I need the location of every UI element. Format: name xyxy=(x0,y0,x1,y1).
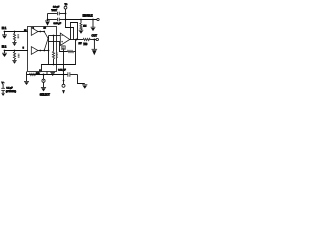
capacitor C1 bypass top xyxy=(48,12,66,16)
wire feedback column vertical xyxy=(42,40,76,72)
terminal OUT xyxy=(96,38,98,40)
node junction pulldown xyxy=(80,19,82,21)
op-amp U2 xyxy=(60,33,69,45)
wire op-amp inverting input xyxy=(49,35,61,37)
wire box pin to rail left xyxy=(26,72,28,82)
wire inverting feedback drop xyxy=(60,42,68,52)
wire mux common vertical xyxy=(48,36,50,65)
wire ENABLE rail xyxy=(66,19,97,21)
svg-text:(OPTIONAL): (OPTIONAL) xyxy=(6,90,16,93)
value label R3 xyxy=(17,34,19,38)
plus sign U2 xyxy=(61,41,63,43)
capacitor C3 in rail xyxy=(68,72,78,77)
svg-text:V: V xyxy=(63,91,65,93)
svg-text:SELECT: SELECT xyxy=(40,92,51,96)
node junction switch1 pivot xyxy=(43,31,45,33)
node junction bottom cap xyxy=(65,19,67,21)
value label R4 xyxy=(18,54,20,58)
svg-text:ENABLE: ENABLE xyxy=(83,13,93,17)
svg-text:IN 2: IN 2 xyxy=(2,46,7,49)
svg-text:6.8 µF: 6.8 µF xyxy=(53,6,60,8)
ground C4 xyxy=(2,93,5,96)
node junction output column xyxy=(75,39,77,41)
node junction switch2 pivot xyxy=(43,50,45,52)
resistor R6 series output xyxy=(83,38,90,40)
IC U1 analog switch box outline xyxy=(28,27,57,72)
wire control column vertical xyxy=(63,49,65,84)
svg-text:0.33 µF: 0.33 µF xyxy=(54,23,62,25)
resistor R1 gain-set vertical xyxy=(52,36,54,65)
wire op-amp non-inverting input xyxy=(49,41,61,43)
wire caps left vertical xyxy=(47,14,49,20)
wire hop over column xyxy=(71,23,78,40)
capacitor C2 bypass bottom xyxy=(48,18,66,22)
resistor R2 feedback xyxy=(68,50,74,52)
wire box pin stub xyxy=(46,72,48,75)
svg-text:IN 1: IN 1 xyxy=(2,27,7,30)
node junction top cap xyxy=(65,13,67,15)
wire op-amp output xyxy=(70,39,84,41)
node junction OUT xyxy=(93,39,95,41)
ground below OUT junction xyxy=(92,40,98,56)
ground stub right xyxy=(91,20,96,32)
ground below SELECT xyxy=(41,82,46,91)
ground below R5 xyxy=(79,30,84,34)
terminal SELECT xyxy=(42,75,45,83)
resistor R3 shunt input1 xyxy=(13,32,15,43)
value label R1 marks xyxy=(56,52,58,58)
wire buffer2 output xyxy=(38,50,49,52)
switch S2 arm xyxy=(44,37,48,50)
ground below R4 xyxy=(12,60,16,63)
ground under box xyxy=(50,73,55,77)
resistor R4 shunt input2 xyxy=(13,51,15,61)
node junction control lower xyxy=(63,80,65,82)
node junction SELECT xyxy=(43,74,45,76)
node junction R1 top xyxy=(53,35,55,37)
wire IN2 horizontal xyxy=(5,50,29,52)
terminal A/B control xyxy=(62,84,65,87)
node junction R1 bottom xyxy=(53,64,55,66)
ground at IN1 terminal xyxy=(2,32,7,39)
ground caps left xyxy=(45,20,50,26)
wire bottom rail xyxy=(27,74,68,76)
node IN1 terminal junction xyxy=(4,31,6,33)
ground below rail left xyxy=(24,81,29,85)
terminal ENABLE xyxy=(97,18,99,20)
node junction R3 top xyxy=(14,31,16,33)
svg-text:5: 5 xyxy=(23,48,25,50)
svg-text:TANT: TANT xyxy=(51,9,57,12)
wire to OUT terminal xyxy=(90,39,96,41)
ground below R3 xyxy=(12,43,16,47)
switch S1 arm xyxy=(44,32,48,40)
svg-text:OUT: OUT xyxy=(91,33,97,37)
resistor R7 bottom xyxy=(30,73,37,75)
svg-text:16: 16 xyxy=(43,28,46,30)
svg-text:2W: 2W xyxy=(79,43,82,45)
minus sign U2 xyxy=(61,35,63,37)
node junction common on channel2 wire xyxy=(48,50,50,52)
node junction rail right xyxy=(92,19,94,21)
wire V+ vertical xyxy=(65,9,67,20)
svg-text:0.01 µF: 0.01 µF xyxy=(58,70,66,72)
value box R2 label xyxy=(61,46,65,50)
node junction buffer1 out xyxy=(39,31,41,33)
wire C3 dogleg xyxy=(78,75,85,84)
wire IN1 horizontal xyxy=(5,31,29,33)
svg-text:0.1 µF: 0.1 µF xyxy=(6,87,13,89)
wire V+ staircase xyxy=(66,20,74,40)
svg-text:1M: 1M xyxy=(83,26,86,28)
node IN2 terminal junction xyxy=(4,50,6,52)
node junction caps left xyxy=(47,19,49,21)
node junction control rail xyxy=(63,74,65,76)
svg-text:V+: V+ xyxy=(64,4,68,6)
wire buffer1 output xyxy=(38,31,44,33)
buffer A2 channel2 xyxy=(31,47,38,55)
node junction buffer2 out xyxy=(39,50,41,52)
resistor R5 pulldown xyxy=(80,20,82,31)
ground at IN2 terminal xyxy=(2,51,7,58)
terminal V+ xyxy=(64,6,67,9)
node junction R4 top xyxy=(14,50,16,52)
wire R2 to output column xyxy=(73,51,75,53)
buffer A1 channel1 xyxy=(31,28,38,36)
svg-text:750: 750 xyxy=(83,43,88,46)
ground C3 xyxy=(82,85,87,89)
capacitor C4 optional xyxy=(1,84,5,93)
